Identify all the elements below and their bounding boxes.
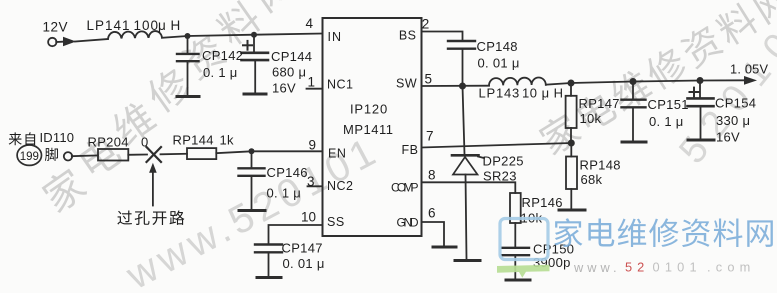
label laizi (from) (9, 132, 22, 145)
ground CP144 (244, 93, 266, 96)
node junction CP151 (630, 78, 637, 85)
wire 12V input arrow (63, 37, 76, 46)
ground RP148 (559, 209, 585, 212)
diode DP225 SR23 (452, 154, 479, 157)
svg-text:199: 199 (20, 151, 39, 163)
svg-text:SR23: SR23 (483, 169, 517, 184)
wire callout arrow via open (152, 170, 154, 206)
wire FB pin 7 to divider (422, 143, 572, 148)
svg-text:www.: www. (573, 260, 621, 275)
svg-text:1k: 1k (220, 132, 235, 147)
svg-text:DP225: DP225 (483, 154, 524, 169)
wire BS pin 2 to CP148 (422, 32, 463, 41)
svg-text:FB: FB (402, 143, 419, 157)
capacitor C P144 polarity plus (243, 44, 252, 46)
label guokong kailu (via open) (117, 210, 132, 224)
svg-text:16V: 16V (716, 130, 740, 145)
capacitor CP148 (448, 40, 475, 42)
svg-text:0: 0 (141, 135, 148, 150)
svg-text:4: 4 (306, 16, 314, 31)
capacitor CP147 (255, 243, 282, 245)
svg-text:CP142: CP142 (202, 48, 243, 63)
svg-text:68k: 68k (581, 172, 603, 187)
ground CP147 (257, 276, 281, 279)
resistor RP146 (510, 193, 521, 223)
svg-text:0. 01 μ: 0. 01 μ (478, 56, 520, 71)
wire input to LP141 (75, 39, 108, 42)
svg-text:COMP: COMP (391, 181, 419, 195)
svg-text:16V: 16V (272, 81, 296, 96)
wire terminal to RP204 (72, 154, 98, 157)
svg-text:330 μ: 330 μ (716, 113, 750, 128)
svg-text:IN: IN (328, 30, 343, 44)
capacitor CP154 (699, 81, 701, 98)
svg-text:CP147: CP147 (282, 241, 323, 256)
capacitor CP151 (632, 82, 634, 99)
node X via open mark (147, 147, 162, 162)
svg-text:680 μ: 680 μ (272, 65, 306, 80)
wire GND pin 6 (422, 222, 445, 246)
svg-text:CP146: CP146 (267, 165, 308, 180)
node junction SW (459, 83, 466, 90)
svg-text:SW: SW (396, 77, 417, 91)
node junction CP154 (697, 77, 704, 84)
node junction RP147 (568, 80, 575, 87)
svg-text:GND: GND (397, 216, 419, 230)
svg-text:6: 6 (428, 206, 436, 221)
wire COMP pin 8 to RP146 (422, 182, 516, 193)
svg-text:1. 05V: 1. 05V (730, 62, 768, 77)
node junction CP144 (251, 32, 257, 38)
wire output arrow 1.05V (744, 76, 757, 85)
capacitor CP142 (187, 36, 189, 53)
svg-text:7: 7 (426, 129, 434, 144)
ground GND pin (433, 246, 456, 249)
svg-text:RP147: RP147 (579, 96, 620, 111)
node junction CP142 (185, 33, 191, 39)
svg-text:RP204: RP204 (88, 135, 129, 150)
op-amp U1 IC IP120 MP1411 (323, 18, 422, 236)
svg-text:NC1: NC1 (327, 78, 354, 92)
svg-text:CP144: CP144 (271, 49, 312, 64)
svg-text:.com: .com (707, 260, 756, 275)
wire LP141 to IN pin 4 (162, 34, 323, 38)
capacitor CP154 polarity plus (690, 91, 699, 93)
node junction FB divider (568, 140, 575, 147)
resistor RP204 (98, 149, 128, 161)
svg-text:CP154: CP154 (715, 96, 756, 111)
watermark site name chinese (554, 218, 772, 247)
label jiao (pin) (45, 148, 58, 161)
ground CP150 (506, 279, 530, 282)
svg-text:10 μ H: 10 μ H (522, 86, 564, 101)
wire RP144 to EN pin 9 (216, 151, 322, 153)
svg-text:10: 10 (301, 210, 316, 225)
svg-text:9: 9 (309, 138, 317, 153)
svg-text:2: 2 (422, 17, 430, 32)
svg-text:5: 5 (425, 72, 433, 87)
node 199 pin circle (17, 145, 41, 165)
svg-text:ID110: ID110 (40, 130, 75, 145)
resistor RP148 (570, 143, 572, 157)
svg-text:0. 1 μ: 0. 1 μ (267, 186, 302, 201)
node 12V input terminal (48, 38, 56, 46)
svg-text:0. 1 μ: 0. 1 μ (203, 65, 238, 80)
wire LP143 to output (546, 80, 746, 84)
svg-text:0. 1 μ: 0. 1 μ (649, 114, 684, 129)
svg-text:10k: 10k (580, 111, 602, 126)
svg-text:CP151: CP151 (648, 97, 689, 112)
ground CP151 (622, 141, 646, 144)
svg-text:8: 8 (428, 168, 436, 183)
svg-text:μ H: μ H (158, 18, 181, 33)
wire SW junction down to diode (463, 86, 465, 154)
svg-text:100: 100 (134, 18, 160, 33)
svg-text:0101: 0101 (653, 260, 702, 275)
ground diode (455, 259, 480, 262)
svg-text:12V: 12V (43, 20, 69, 35)
svg-text:1: 1 (308, 75, 316, 90)
capacitor CP150 (502, 247, 529, 249)
inductor LP141 (108, 31, 162, 39)
svg-text:EN: EN (328, 146, 346, 160)
svg-text:IP120: IP120 (350, 102, 388, 117)
wire X to RP144 (161, 153, 188, 156)
inductor LP143 (489, 78, 546, 86)
resistor RP147 (570, 83, 572, 96)
ground CP146 (239, 209, 265, 212)
svg-text:RP144: RP144 (173, 132, 214, 147)
svg-text:3: 3 (307, 174, 315, 189)
ground CP154 (688, 139, 714, 142)
svg-text:BS: BS (399, 28, 417, 42)
node junction CP146 (249, 148, 255, 154)
node terminal from ID110 (64, 152, 72, 160)
svg-text:RP146: RP146 (522, 195, 563, 210)
capacitor CP144 (253, 35, 255, 52)
wire NC1 pin 1 stub (307, 88, 323, 90)
wire SS pin 10 to CP147 (269, 225, 323, 244)
wire SW pin 5 (422, 85, 490, 87)
resistor RP144 (187, 148, 216, 159)
logo watermark green swoosh (497, 265, 550, 278)
svg-text:NC2: NC2 (327, 179, 354, 193)
wire NC2 pin 3 stub (308, 185, 323, 187)
svg-text:SS: SS (327, 215, 345, 229)
svg-text:CP148: CP148 (477, 39, 518, 54)
ground CP142 (177, 95, 199, 98)
svg-text:0. 01 μ: 0. 01 μ (283, 256, 325, 271)
svg-text:RP148: RP148 (580, 158, 621, 173)
wire leader DP225 (478, 157, 484, 159)
svg-text:52: 52 (625, 260, 649, 275)
svg-text:MP1411: MP1411 (343, 122, 393, 137)
logo watermark TV frame (500, 219, 548, 260)
svg-text:LP143: LP143 (479, 86, 521, 101)
capacitor CP146 (251, 151, 253, 167)
wire RP204 to X (128, 154, 147, 156)
svg-text:LP141: LP141 (87, 18, 131, 33)
